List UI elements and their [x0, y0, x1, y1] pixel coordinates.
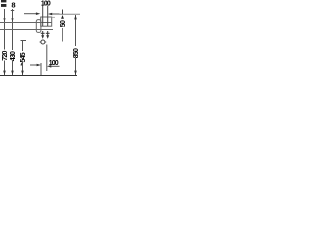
dimension line 430 (second left): [11, 9, 14, 75]
arrowhead up 850: [74, 15, 77, 19]
bottom 100 dim right arrow: [50, 65, 60, 67]
floor line: [0, 75, 77, 77]
reference line rim level right: [60, 13, 81, 15]
supply symbol right (arrow down with bar): [46, 31, 50, 39]
arrowhead down floor 720: [3, 71, 6, 75]
supply symbol left (arrow down with bar): [41, 31, 45, 39]
basin bottom line: [0, 29, 53, 31]
box top tick right: [52, 16, 55, 18]
dimension line 850 (right): [75, 15, 77, 75]
extension line right connection: [47, 6, 49, 27]
background: [0, 0, 80, 80]
svg-text:50: 50: [60, 20, 67, 27]
svg-text:430: 430: [10, 51, 17, 61]
extension line drain down: [40, 63, 42, 75]
arrowhead down mid 720: [3, 18, 5, 22]
drain circle: [40, 40, 47, 44]
arrowhead down floor 850: [74, 71, 77, 75]
arrowhead down mid 430: [11, 18, 13, 22]
basin top line: [0, 22, 52, 24]
arrow right toward 100 dim: [24, 13, 38, 15]
arrow left toward 100 dim: [51, 13, 60, 15]
dimension line 720 (left): [4, 9, 6, 75]
mounting box: [41, 17, 52, 26]
label 545 tail mark: [21, 63, 22, 66]
svg-text:720: 720: [2, 51, 9, 61]
extension line left connection: [42, 6, 44, 27]
label blob top-left (clipped rotated text): [1, 0, 6, 7]
arrowhead down floor 430: [11, 71, 14, 75]
dimension line 545 (third left): [21, 41, 27, 76]
basin front edge rounded profile: [36, 20, 41, 33]
svg-text:8: 8: [11, 0, 15, 9]
bottom 100 dim left arrow: [30, 64, 38, 66]
extension line right connection down: [46, 45, 48, 72]
arrowhead down floor 545: [21, 71, 24, 75]
svg-text:545: 545: [20, 52, 27, 62]
small dim 50 at rim level: [62, 10, 64, 15]
svg-text:850: 850: [73, 48, 80, 58]
